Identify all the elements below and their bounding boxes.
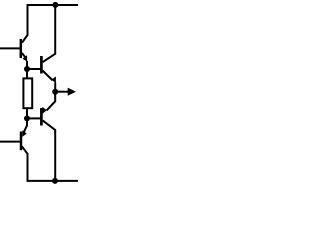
- wire output lead: [55, 91, 68, 93]
- wire Q1 base lead: [0, 47, 20, 49]
- transistor Q1 (NPN) base bar: [20, 39, 23, 58]
- wire bottom rail: [27, 180, 79, 182]
- wire node A to Q2 base: [27, 68, 41, 70]
- arrow output: [68, 88, 76, 96]
- wire Q1 collector to top rail: [22, 5, 28, 43]
- wire Q2 collector to top junction: [43, 5, 56, 62]
- wire top rail: [27, 4, 79, 6]
- node B: [24, 115, 30, 121]
- wire Q3 collector to bottom junction: [43, 120, 56, 180]
- wire Q4 base lead: [0, 141, 20, 143]
- transistor Q2 emitter diagonal: [43, 71, 53, 81]
- wire Q2 emitter to output node: [54, 83, 56, 92]
- wire node B to Q3 base: [27, 117, 41, 119]
- node A: [24, 66, 30, 72]
- transistor Q2 emitter arrow: [52, 76, 56, 83]
- transistor Q4 (PNP) emitter diagonal: [24, 118, 28, 132]
- transistor Q2 (NPN) base bar: [40, 56, 43, 74]
- transistor Q3 (PNP) emitter with arrow: [47, 92, 56, 111]
- wire node A to resistor: [26, 69, 28, 78]
- wire Q4 collector to bottom rail: [22, 146, 28, 181]
- transistor Q4 (PNP) base bar: [20, 132, 23, 151]
- transistor Q3 (PNP) base bar: [40, 108, 43, 126]
- transistor Q4 emitter arrow: [22, 130, 26, 137]
- wire resistor to node B: [26, 108, 28, 118]
- transistor Q1 emitter diagonal: [22, 53, 25, 57]
- resistor R1: [23, 78, 32, 108]
- node top junction: [52, 2, 58, 8]
- node bottom junction: [52, 178, 58, 184]
- wire Q1 emitter to node A: [26, 61, 28, 69]
- transistor Q1 emitter arrow: [22, 55, 27, 61]
- node output: [52, 89, 58, 95]
